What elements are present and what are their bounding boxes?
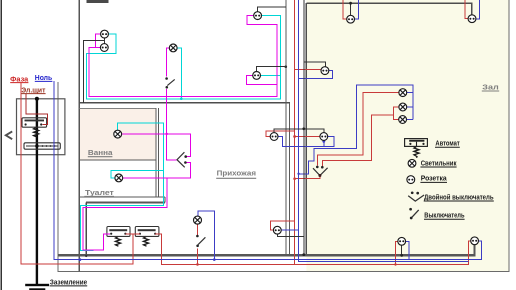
socket Sb <box>100 44 108 52</box>
node: blue dot at left wall crossing <box>79 258 82 261</box>
wall: toilet bottom wall <box>79 196 165 198</box>
node: junction dot on red spine at socket B feed <box>293 135 296 138</box>
wire: toilet light line to DS1 lower dot riser <box>123 162 191 178</box>
wire: cyan loop room1 sockets S1/S2 to Sa/Sb <box>86 16 280 99</box>
wall: top-left room bottom wall <box>79 102 290 104</box>
wall: bath right wall line 1 <box>155 108 157 198</box>
light room1 <box>169 44 177 52</box>
breaker Q0 bar <box>25 120 45 122</box>
light L1 <box>399 89 407 97</box>
wall: hallway thick wall horizontal <box>86 202 165 204</box>
left page edge line <box>0 0 2 290</box>
breaker QF1 bar <box>109 229 127 231</box>
wire: red feed L2/L3 staircase to double switch right dot <box>323 115 394 166</box>
wire: ground riser spine <box>303 0 305 255</box>
wire: neutral feed from Ноль along bottom blue bus to socket H <box>54 81 482 259</box>
wire: ground tee to socket C <box>304 62 326 67</box>
wall: corridor wall 1 <box>285 0 287 255</box>
svg-text:Светильник: Светильник <box>421 160 457 167</box>
breaker QF2 zigzag <box>144 236 149 246</box>
legend: Выключатель symbol <box>409 208 418 220</box>
wire: dark red drop from Эл.щит into breaker Q0 <box>26 94 48 125</box>
wire: double switch DS2 apex feed from red spine <box>295 177 320 179</box>
wire: blue riser spine, turns right as second bottom blue <box>299 0 469 261</box>
wall: bath / toilet divider <box>79 159 156 161</box>
wire: hallway light to switch upper segment <box>197 224 199 235</box>
breaker Q0 pin dots <box>25 123 27 125</box>
room fill: Ванна (pale pink) <box>80 109 156 160</box>
node: magenta junction at bath line crossing <box>166 133 168 135</box>
legend: Двойной выключатель symbol <box>408 191 424 201</box>
terminal strip junction dot <box>35 144 38 147</box>
wall: Зал left wall <box>305 3 307 255</box>
node: ground spine bottom dot <box>302 253 305 256</box>
double switch DS2 living room <box>313 166 328 177</box>
wire: blue stubs to lights L1 L2 L3 <box>407 93 413 120</box>
svg-text:Автомат: Автомат <box>435 141 460 148</box>
node: dot on ground spine at A-B tee <box>302 127 305 130</box>
node: junction dot on red spine at apex feed <box>293 177 296 180</box>
breaker QF1 pin dots <box>110 233 112 235</box>
wall: corridor wall 2 <box>289 103 291 256</box>
wire: hallway light neutral riser <box>198 211 215 260</box>
wire: red feed to socket B <box>295 136 320 138</box>
wire: socket S1 ground to wall <box>258 7 286 12</box>
wire: magenta socket S1 hook down to S2 junction <box>247 16 277 85</box>
wire: socket F blue to spine <box>282 229 299 231</box>
wall: hallway thick wall step riser <box>164 197 166 203</box>
wire: red feed to socket C <box>295 69 321 71</box>
terminal strip <box>24 143 60 149</box>
wire: socket D ground stub <box>350 3 352 15</box>
socket Sa <box>101 30 109 38</box>
light bath <box>114 130 122 138</box>
wire: red feed to light L1 via staircase to double switch left dot <box>318 93 399 166</box>
wire: cyan drop room1 light to loop <box>177 48 181 99</box>
wire: red feed to socket E from top <box>465 0 468 19</box>
ground main thick wire <box>36 99 38 284</box>
wire: blue feed to socket E from top <box>476 0 480 19</box>
svg-text:Прихожая: Прихожая <box>217 170 256 177</box>
электрощит box <box>17 99 65 155</box>
socket S2 <box>253 72 261 80</box>
wire: blue feed to socket D from top <box>355 0 359 19</box>
wire: blue link socket A to socket B <box>278 137 334 147</box>
wire: ground link between sockets Sa Sb <box>84 38 105 103</box>
wire: red link L2-L3 riser <box>393 107 399 120</box>
wire: red riser spine in corridor wall <box>294 0 296 264</box>
light L3 <box>399 116 407 124</box>
wire: blue lights riser and staircase to spine <box>299 85 413 174</box>
light hallway <box>194 216 202 224</box>
node: dot on top wall at D <box>349 2 352 5</box>
light toilet <box>115 174 123 182</box>
wire: red feed to socket D from top <box>343 0 347 19</box>
wire: cyan tap socket S2 <box>261 74 281 76</box>
wire: socket S2 ground to wall <box>257 67 286 72</box>
wire: cyan toilet light tap <box>111 170 163 178</box>
svg-text:Зал: Зал <box>482 84 498 91</box>
svg-text:Двойной выключатель: Двойной выключатель <box>424 193 494 201</box>
wire: magenta socket S2 hook and loop to Sa/Sb <box>89 48 277 97</box>
scrollbar chevron <box>6 131 12 139</box>
node: blue junction dot on bus at hallway riser <box>213 258 216 261</box>
wire: socket F ground to spine <box>277 234 304 236</box>
svg-text:Розетка: Розетка <box>421 176 447 183</box>
switch SW1 room1 <box>165 77 174 88</box>
wire: cyan bath light run down left and to breaker area <box>80 123 163 251</box>
wire: red feed to socket A <box>266 131 295 136</box>
node: dot at hallway wall bottom <box>85 255 87 257</box>
wire: phase feed from Фаза down and along bottom to breaker riser <box>21 82 133 264</box>
switch SW2 hallway <box>196 235 205 247</box>
legend: Автомат bar <box>409 140 424 142</box>
wire: below switch down to DS1 apex <box>167 89 177 160</box>
wall: Зал top wall <box>306 3 471 15</box>
socket G <box>398 237 406 245</box>
wall: hallway wall vertical drop <box>85 203 87 256</box>
breaker QF2 pin dots <box>139 233 141 235</box>
wire: red riser to socket G <box>396 241 398 264</box>
ground symbol bar 2 <box>29 288 45 290</box>
legend: Автомат symbol box <box>405 139 428 147</box>
breaker Q0 (panel) zigzag <box>34 127 39 137</box>
legend: Автомат stem <box>416 142 418 147</box>
node: panel top junction dot <box>35 97 39 101</box>
wire: magenta feed drop to breaker QF1 <box>83 178 167 250</box>
wire: socket G blue drop to bus <box>406 241 409 259</box>
wire: QF2 output down to bottom red bus to socket H <box>155 234 470 265</box>
breaker QF1 zigzag <box>116 236 121 246</box>
wire: hallway switch to red bus <box>197 249 199 265</box>
wall: top partial bar <box>87 0 109 3</box>
socket A <box>270 133 278 141</box>
node: junction dot on red bus at hallway switch <box>196 263 199 266</box>
wall: bottom thick wall with hook to socket H <box>58 245 475 255</box>
wire: breaker input link QF1-QF2 <box>125 233 139 235</box>
breaker Q0 box <box>22 118 47 127</box>
node: blue junction dot on spine <box>297 173 299 175</box>
svg-text:Выключатель: Выключатель <box>424 213 465 220</box>
breaker QF1 box <box>107 227 130 237</box>
socket F <box>273 226 281 234</box>
socket H <box>471 237 479 245</box>
terminal strip contact dots <box>42 145 44 147</box>
room fill: Зал (cream) <box>306 0 508 271</box>
wire: socket G ground drop to wall <box>401 245 403 255</box>
wire: socket B bottom stub <box>323 141 325 147</box>
legend: Автомат symbol zigzag <box>414 146 419 157</box>
legend: Розетка symbol <box>407 176 415 184</box>
breaker QF2 bar <box>138 229 156 231</box>
node: blue junction dot under socket B <box>322 140 325 143</box>
node: junction dot red bus at G riser <box>394 263 396 265</box>
wire: room1 light to switch <box>167 48 170 77</box>
socket D <box>347 15 355 23</box>
wire: magenta tap socket Sa <box>96 34 101 47</box>
legend: Светильник symbol <box>408 159 416 167</box>
breaker QF2 box <box>135 227 159 237</box>
wire: bath light line to DS1 upper dot <box>122 134 191 157</box>
wire: blue return socket C to spine <box>299 71 333 79</box>
socket S1 <box>254 12 262 20</box>
legend: Автомат pin dots <box>409 143 411 145</box>
wall: bath right wall line 2 <box>157 108 159 198</box>
socket E <box>468 15 476 23</box>
socket B <box>320 133 328 141</box>
socket C <box>321 67 329 75</box>
ground symbol bar 1 <box>25 284 49 286</box>
double switch DS1 hallway <box>177 152 187 167</box>
node: dot on wall at S2 ground <box>285 65 288 68</box>
light L2 <box>399 103 407 111</box>
wire: red feed to socket F <box>271 221 295 230</box>
wall: outer left wall of apartment <box>78 0 80 271</box>
node: dot on bottom wall at G ground <box>400 254 403 257</box>
node: cyan junction dot <box>180 97 183 100</box>
wire: ground tee to sockets A and B <box>274 129 324 133</box>
wall: bath block inner top line <box>79 107 156 109</box>
